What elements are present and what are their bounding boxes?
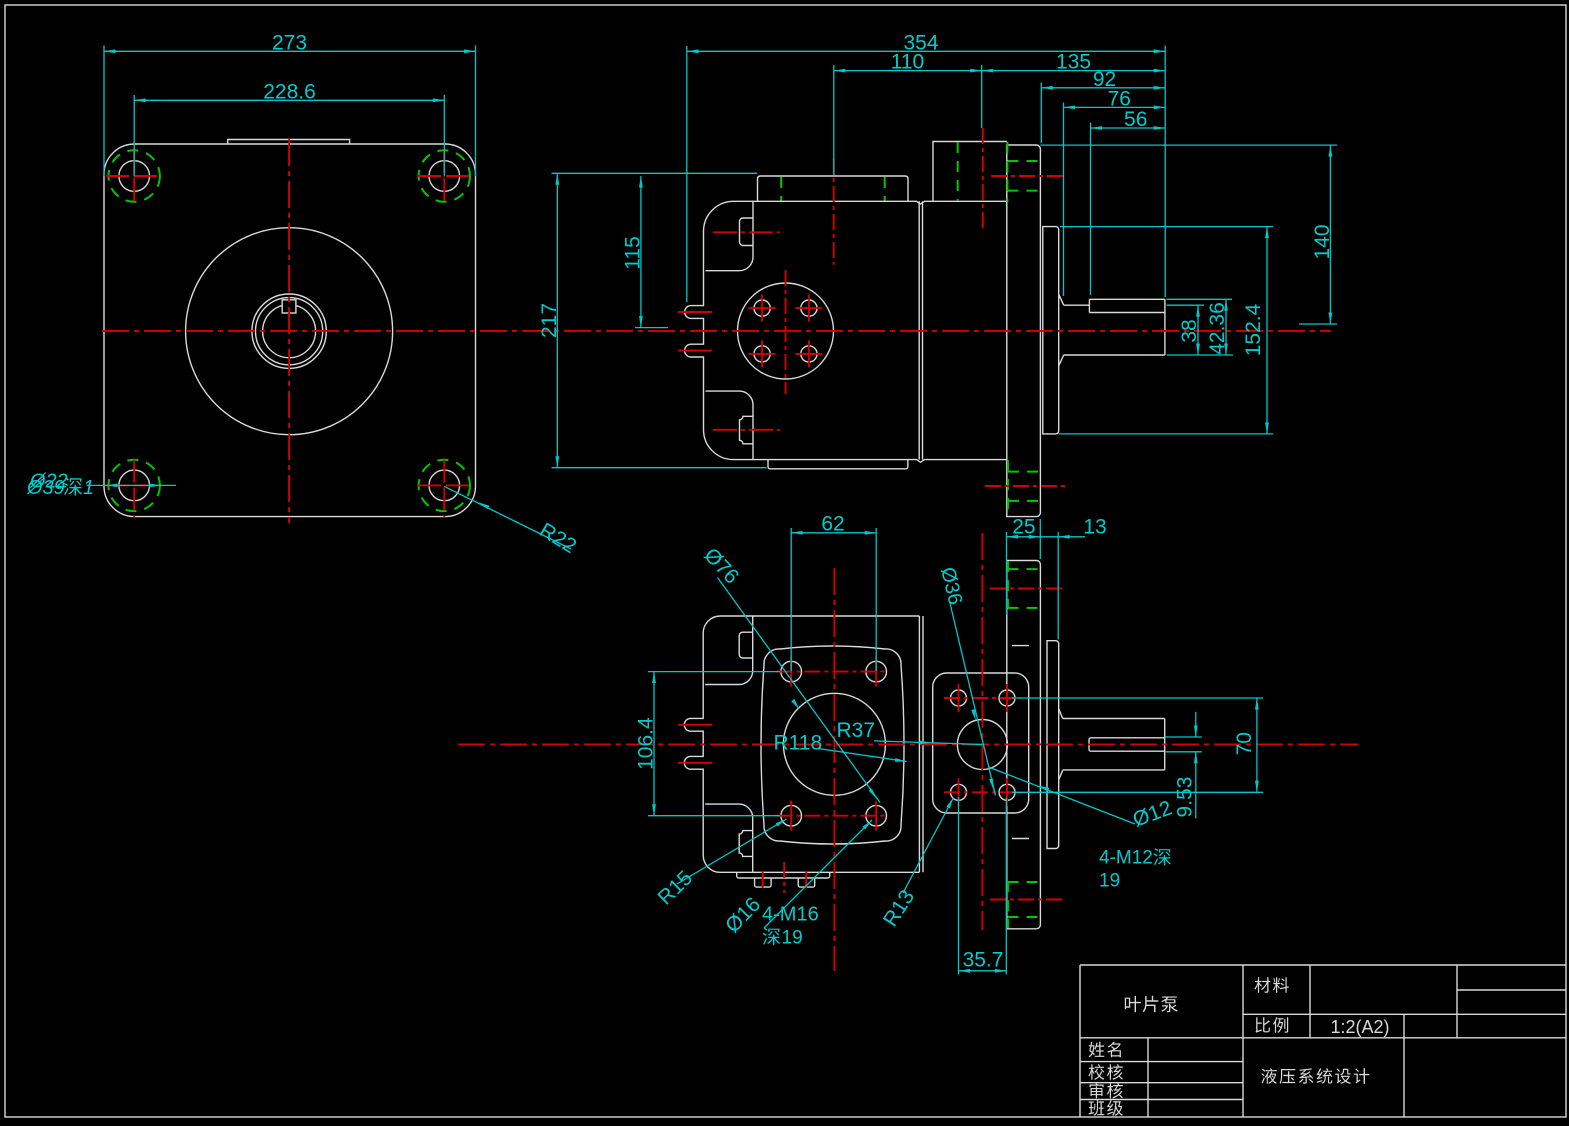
svg-text:19: 19 [782,928,803,949]
svg-text:56: 56 [1124,108,1147,131]
svg-text:35.7: 35.7 [963,949,1004,972]
svg-text:273: 273 [272,32,307,55]
svg-text:42.36: 42.36 [1206,302,1229,355]
svg-text:152.4: 152.4 [1242,303,1265,356]
svg-text:25: 25 [1012,516,1035,539]
svg-text:62: 62 [821,513,844,536]
svg-text:135: 135 [1056,51,1091,74]
svg-text:1: 1 [83,477,94,499]
svg-text:110: 110 [891,51,924,74]
svg-text:9.53: 9.53 [1174,777,1197,818]
svg-text:4-M12: 4-M12 [1099,848,1153,869]
svg-text:140: 140 [1311,224,1334,259]
svg-text:70: 70 [1233,732,1256,755]
svg-text:19: 19 [1099,871,1120,892]
svg-text:4-M16: 4-M16 [762,904,819,926]
svg-text:R37: R37 [837,719,876,742]
svg-text:R118: R118 [774,732,823,755]
svg-text:76: 76 [1108,87,1131,110]
svg-text:228.6: 228.6 [263,81,316,104]
svg-text:Ø39: Ø39 [26,477,65,499]
svg-text:115: 115 [622,236,645,269]
svg-text:13: 13 [1083,516,1106,539]
svg-text:1:2(A2): 1:2(A2) [1330,1017,1389,1037]
svg-text:106.4: 106.4 [635,717,658,770]
svg-text:217: 217 [538,303,561,338]
svg-text:38: 38 [1178,319,1201,342]
